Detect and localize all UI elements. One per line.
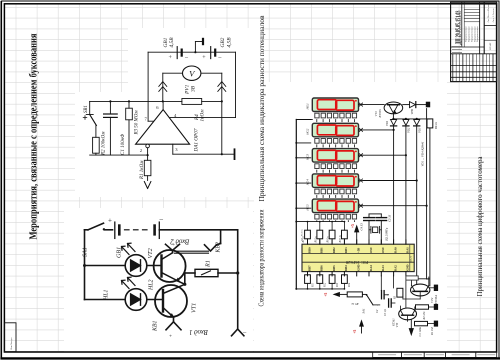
switch SA1 <box>362 294 378 314</box>
switch SA1 <box>83 223 106 257</box>
diode VD1 <box>385 120 397 127</box>
svg-text:C5 33: C5 33 <box>387 214 391 222</box>
resistor R7 <box>302 221 310 244</box>
wire top rail <box>85 229 238 231</box>
svg-text:GND: GND <box>357 264 361 270</box>
terminal minus bottom <box>232 329 248 336</box>
svg-text:OSC: OSC <box>381 247 385 253</box>
svg-text:Лит. Масса Масшт.: Лит. Масса Масшт. <box>488 3 490 22</box>
battery GB1 <box>108 216 164 259</box>
resistor R11 <box>305 275 315 290</box>
svg-text:ZQ 20МГц: ZQ 20МГц <box>385 227 389 241</box>
svg-text:OSC: OSC <box>369 247 373 253</box>
svg-text:+: + <box>108 217 112 225</box>
svg-text:VD1 ... VD4 КД446: VD1 ... VD4 КД446 <box>421 141 425 166</box>
svg-text:R3 50 МОм: R3 50 МОм <box>135 110 140 136</box>
ground arrow bottom <box>409 320 422 337</box>
svg-text:DD1: DD1 <box>409 255 413 262</box>
svg-text:КТ361: КТ361 <box>392 318 395 327</box>
svg-text:ДП 29.05.05.151.03: ДП 29.05.05.151.03 <box>455 10 463 44</box>
svg-text:+5: +5 <box>324 292 328 296</box>
svg-text:R1: R1 <box>206 260 212 268</box>
bus verticals <box>394 109 430 286</box>
node between transistors <box>183 283 186 286</box>
wire right rail <box>237 230 239 329</box>
svg-text:R1 1М: R1 1М <box>431 327 434 336</box>
seven-segment display HG1 <box>306 97 363 119</box>
svg-text:VT1: VT1 <box>192 303 198 313</box>
svg-text:GB1: GB1 <box>163 37 169 47</box>
transistor VT2 <box>147 248 186 284</box>
svg-text:GB2: GB2 <box>220 37 226 47</box>
left frame cell (inv no) <box>4 323 16 352</box>
LED HL1 <box>104 277 147 310</box>
resistor R2 <box>93 126 107 157</box>
seven-segment display HG3 <box>306 147 363 169</box>
svg-text:1кОм: 1кОм <box>200 109 206 122</box>
bottom stamp bar <box>373 352 497 357</box>
resistor R9 <box>327 221 335 244</box>
digit select bus (left) <box>295 120 312 289</box>
svg-text:R10 1к: R10 1к <box>339 234 342 243</box>
op-amp circuit group <box>83 37 235 189</box>
wire output <box>162 101 164 109</box>
svg-text:RB2: RB2 <box>332 247 336 253</box>
capacitor C4 <box>359 214 374 244</box>
svg-text:3В: 3В <box>191 85 197 93</box>
svg-text:R9 1к: R9 1к <box>327 236 330 244</box>
svg-text:Вход 1: Вход 1 <box>189 328 208 335</box>
svg-text:Мероприятия связанные с: Мероприятия связанные с <box>477 26 479 42</box>
svg-text:R11: R11 <box>311 282 314 288</box>
+5 mark bottom <box>353 321 363 334</box>
svg-text:RA4: RA4 <box>369 265 373 271</box>
svg-text:RB3: RB3 <box>344 247 348 253</box>
svg-text:R2 47к: R2 47к <box>423 311 426 321</box>
svg-text:Принципиальная схема цифрового: Принципиальная схема цифрового частотоме… <box>476 156 484 297</box>
capacitor C1 <box>104 101 126 155</box>
svg-text:Инв.№подл.: Инв.№подл. <box>10 337 13 350</box>
svg-text:R7...R14 1к: R7...R14 1к <box>300 228 303 242</box>
svg-text:КТ315А: КТ315А <box>434 295 438 306</box>
crystal ZQ1 <box>369 226 389 241</box>
caption: Схема индикатора разности напряжении <box>259 209 266 306</box>
resistor R3 <box>393 288 403 300</box>
diode VD5 <box>403 102 426 115</box>
svg-text:КТ315: КТ315 <box>378 109 382 119</box>
svg-text:R5 1к: R5 1к <box>351 302 360 306</box>
svg-text:HG2: HG2 <box>306 128 310 136</box>
capacitor C2 <box>376 276 387 313</box>
wire supply left <box>148 52 153 121</box>
LED indicator circuit group <box>83 216 248 340</box>
wire voltmeter loop <box>163 73 222 101</box>
svg-text:RA1: RA1 <box>406 247 410 253</box>
battery GB2 <box>202 37 232 61</box>
transistor VT1 КТ315 (driver) <box>374 102 403 119</box>
op-amp DA1 <box>136 105 200 153</box>
resistor R10 <box>339 221 347 244</box>
svg-text:RB6: RB6 <box>320 265 324 271</box>
wire display rows to buses <box>363 105 428 207</box>
voltmeter PV1 <box>183 66 201 95</box>
svg-text:Схема индикатора разности напр: Схема индикатора разности напряжении <box>259 209 266 306</box>
wire pin3 to common <box>173 101 235 159</box>
resistor R1 input <box>415 321 435 336</box>
transistor VT2 КТ315А <box>403 277 438 306</box>
svg-text:Принципиальная схема индикатор: Принципиальная схема индикатора разности… <box>257 15 266 201</box>
svg-text:RA2: RA2 <box>393 265 397 271</box>
switch SB1 <box>83 101 96 125</box>
label VD1...VD4 <box>421 141 425 166</box>
svg-text:DA1 OP07: DA1 OP07 <box>194 128 200 152</box>
svg-text:Мероприятия связанные с: Мероприятия связанные с <box>471 26 473 42</box>
IC DD1 PIC16F628 <box>302 240 414 276</box>
svg-text:VD1: VD1 <box>385 120 389 126</box>
resistor R8 <box>314 221 322 244</box>
svg-text:SA1: SA1 <box>362 308 366 314</box>
ground common point <box>194 39 203 53</box>
wire IC to input stage <box>394 276 406 308</box>
svg-text:HL2: HL2 <box>149 279 155 291</box>
svg-text:C4 33: C4 33 <box>359 223 363 231</box>
polarity chevrons right <box>218 82 226 92</box>
svg-text:Вход 2: Вход 2 <box>170 238 190 245</box>
terminal pad top <box>426 102 430 108</box>
svg-text:SB1: SB1 <box>84 105 89 113</box>
svg-text:VT1: VT1 <box>395 322 399 328</box>
capacitor C3 <box>384 295 395 316</box>
svg-text:+5: +5 <box>351 224 355 228</box>
svg-text:C1 100нФ: C1 100нФ <box>121 134 126 155</box>
connector КВ2 <box>205 230 222 254</box>
svg-text:VD5: VD5 <box>410 109 414 115</box>
svg-text:RB4: RB4 <box>344 265 348 271</box>
svg-text:R6 1к: R6 1к <box>434 121 438 130</box>
svg-text:+5: +5 <box>353 329 357 333</box>
wire input rail <box>90 154 148 156</box>
seven-segment display HG4 <box>306 173 363 195</box>
svg-text:Лист 1 Листов: Лист 1 Листов <box>493 8 495 22</box>
resistor R1 <box>140 148 151 189</box>
svg-text:4,5В: 4,5В <box>226 37 232 48</box>
svg-text:R3: R3 <box>393 295 396 300</box>
wire below IC <box>406 276 429 280</box>
transistor VT1 КТ361 <box>392 306 416 328</box>
svg-text:PIC 16F628: PIC 16F628 <box>345 260 368 265</box>
svg-text:Мероприятия связанные с: Мероприятия связанные с <box>465 26 467 42</box>
resistor R1 <box>185 260 239 284</box>
svg-text:VD3: VD3 <box>418 127 422 133</box>
svg-text:НГАВТ: НГАВТ <box>489 42 492 50</box>
resistor R12 <box>317 275 327 290</box>
svg-text:RA3: RA3 <box>381 265 385 271</box>
svg-text:+: + <box>202 55 206 61</box>
svg-text:C1 100н: C1 100н <box>419 326 422 336</box>
capacitor C5 <box>369 214 391 244</box>
svg-text:R2 100кОм: R2 100кОм <box>102 131 107 156</box>
svg-text:R8 1к: R8 1к <box>314 236 317 244</box>
svg-text:HL1: HL1 <box>104 289 110 301</box>
caption left: Мероприятия, связанные с определением буксования <box>29 33 40 239</box>
svg-text:HG5: HG5 <box>306 204 310 212</box>
anode rail <box>392 118 430 120</box>
segment bus wires (7 verticals) <box>317 118 355 222</box>
svg-text:HG1: HG1 <box>306 103 310 111</box>
svg-text:КВ1: КВ1 <box>153 320 159 332</box>
frequency meter schematic group <box>295 97 438 337</box>
resistor R13 <box>329 275 339 290</box>
label resistor column <box>300 228 303 242</box>
caption: Принципиальная схема индикатора разности потенциалов <box>257 15 266 201</box>
wire battery rail <box>148 51 235 53</box>
svg-text:R13: R13 <box>336 282 339 288</box>
seven-segment display HG5 <box>306 198 363 220</box>
transistor VT1 <box>147 284 198 322</box>
svg-text:C3 0,1: C3 0,1 <box>384 308 387 316</box>
resistor R5 <box>347 292 366 306</box>
battery GB1 <box>163 37 189 61</box>
svg-text:VD2: VD2 <box>407 127 411 133</box>
svg-text:RB5: RB5 <box>332 265 336 271</box>
svg-text:+5В: +5В <box>357 248 361 253</box>
svg-text:Мероприятия связанные с: Мероприятия связанные с <box>468 26 470 42</box>
lower rail <box>295 288 344 290</box>
svg-text:–: – <box>159 216 164 224</box>
terminal Вход 1 <box>153 320 209 339</box>
LED HL2 <box>122 243 155 291</box>
svg-text:HG4: HG4 <box>306 179 310 187</box>
svg-text:Мероприятия, связанные с опред: Мероприятия, связанные с определением бу… <box>29 33 40 239</box>
svg-text:SA1: SA1 <box>83 247 89 257</box>
svg-text:HG3: HG3 <box>306 153 310 161</box>
svg-text:4,5В: 4,5В <box>169 37 175 48</box>
seven-segment display HG2 <box>306 122 363 144</box>
cable pair <box>175 251 209 253</box>
diode VD3 <box>414 120 422 134</box>
svg-text:RA0: RA0 <box>393 247 397 253</box>
resistor R3 <box>126 101 140 155</box>
+5 supply arrow above IC <box>351 224 359 244</box>
svg-text:RB0: RB0 <box>307 247 311 253</box>
svg-text:RB7: RB7 <box>307 265 311 271</box>
wire feedback rail <box>90 100 223 102</box>
svg-text:RB1: RB1 <box>320 247 324 253</box>
svg-text:Мероприятия связанные с: Мероприятия связанные с <box>474 26 476 42</box>
title block <box>451 2 497 81</box>
svg-text:R12: R12 <box>324 282 327 288</box>
resistor R4 <box>182 99 206 122</box>
svg-text:R1 1кОм: R1 1кОм <box>140 160 145 180</box>
resistor R14 <box>342 275 352 290</box>
segment resistor rail <box>295 221 344 223</box>
svg-text:+: + <box>169 334 172 340</box>
polarity chevrons left <box>159 82 167 92</box>
resistor R6 <box>427 119 438 130</box>
resistor R2 <box>416 305 434 321</box>
input terminal Вход 2 <box>166 238 190 251</box>
diode VD2 <box>403 120 411 134</box>
svg-text:VT2: VT2 <box>148 248 154 258</box>
+5 arrow below IC <box>324 292 347 296</box>
terminal pads right <box>430 285 438 327</box>
svg-text:КВ2: КВ2 <box>216 242 222 254</box>
wire left branch <box>83 230 125 300</box>
svg-text:GND: GND <box>406 264 410 270</box>
wire pin4 supply right <box>170 52 236 117</box>
svg-text:R14: R14 <box>348 282 351 288</box>
caption: Принципиальная схема цифрового частотомера <box>476 156 484 297</box>
